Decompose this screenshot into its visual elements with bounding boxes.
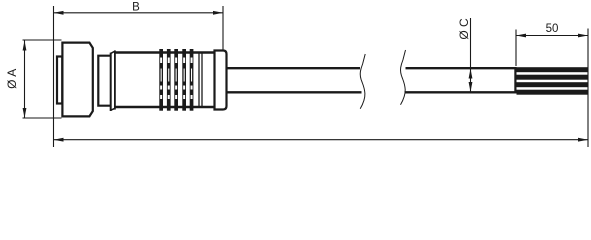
extension line left (B / overall) xyxy=(53,6,55,147)
svg-text:B: B xyxy=(132,2,140,14)
dimension ØC line xyxy=(470,18,472,92)
cable break left xyxy=(360,54,365,109)
dimension 50 left arrow xyxy=(516,34,526,38)
cable left segment bottom line xyxy=(227,91,362,93)
extension line ØA bottom xyxy=(23,117,62,119)
dimension B left arrow xyxy=(54,11,64,15)
overall left arrow xyxy=(54,138,64,142)
dimension B line xyxy=(54,12,224,14)
wire band 1 xyxy=(517,67,589,72)
svg-text:Ø A: Ø A xyxy=(5,69,19,89)
gasket cone top xyxy=(111,51,115,53)
groove pair on body xyxy=(198,54,200,107)
cable end cap xyxy=(215,51,227,110)
wire band 3 xyxy=(517,82,589,87)
body front edge xyxy=(114,50,116,109)
extension line ØA top xyxy=(23,39,62,41)
dimension ØA line xyxy=(24,41,26,119)
dimension B right arrow xyxy=(213,11,223,15)
connector neck section xyxy=(98,56,110,106)
strain-relief rib bars xyxy=(159,49,193,111)
svg-text:50: 50 xyxy=(546,23,559,35)
dimension ØA top arrow xyxy=(23,41,27,51)
extension line 50 left xyxy=(515,30,517,67)
gasket ring left edge xyxy=(110,53,112,111)
cable left segment top line xyxy=(227,67,361,69)
svg-text:Ø C: Ø C xyxy=(457,18,471,40)
extension line right (50 / overall) xyxy=(587,29,589,148)
wire band 4 xyxy=(517,90,589,95)
wire band 2 xyxy=(517,75,589,80)
connector front plate xyxy=(57,57,62,104)
dimension ØC down arrow xyxy=(469,82,473,92)
gasket cone bottom xyxy=(111,108,115,110)
overall dimension line bottom xyxy=(54,139,589,141)
strain-relief rib highlight slits xyxy=(160,58,192,100)
cable sheath end edge xyxy=(514,67,516,94)
connector flange (hex nut) xyxy=(62,43,92,117)
dimension ØA bottom arrow xyxy=(23,108,27,118)
cable right segment bottom line xyxy=(405,91,517,93)
cable break right xyxy=(401,50,406,105)
extension line right of B xyxy=(222,6,224,50)
body top edge xyxy=(115,51,215,53)
cable right segment top line xyxy=(406,67,517,69)
dimension 50 line xyxy=(516,35,588,37)
body bottom edge xyxy=(115,106,215,108)
dimension ØC up arrow xyxy=(469,69,473,79)
overall right arrow xyxy=(578,138,588,142)
dimension 50 right arrow xyxy=(578,34,588,38)
